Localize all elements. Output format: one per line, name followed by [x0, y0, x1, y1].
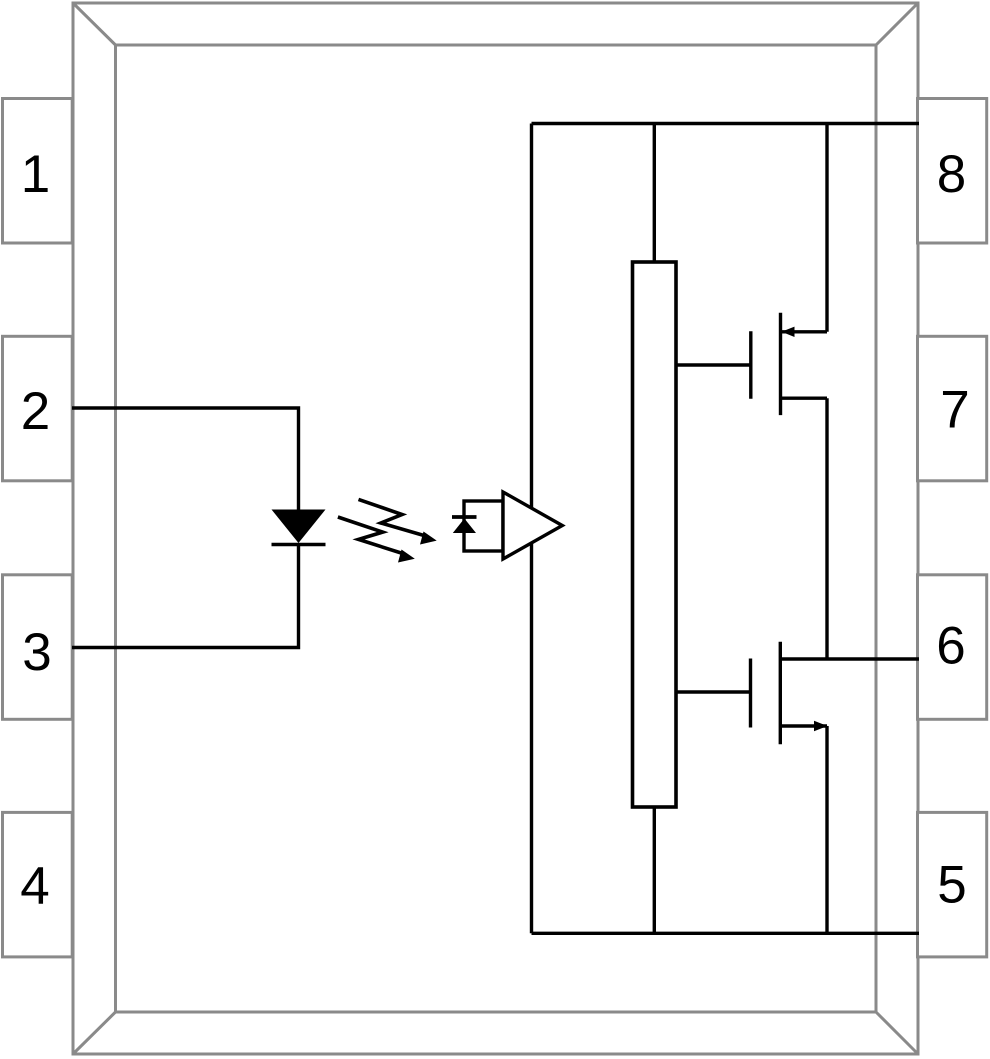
wire Q1 source to Q2 drain node — [825, 398, 828, 659]
wire top rail to pin 8 — [532, 122, 920, 125]
LED D1 (input LED, cathode down) — [272, 510, 326, 545]
driver / charge control block — [633, 262, 677, 807]
photodiode box — [464, 501, 503, 551]
wire left bus of output circuit — [530, 124, 533, 934]
svg-text:5: 5 — [937, 856, 966, 915]
wire Q1 drain to top rail — [825, 124, 828, 332]
package bevel bottom-left — [73, 1012, 116, 1054]
MOSFET Q1 (upper) — [676, 313, 827, 415]
svg-text:3: 3 — [22, 623, 51, 682]
pin 7 pad — [918, 336, 987, 481]
photodiode PD1 (cathode up) — [452, 517, 477, 533]
svg-text:6: 6 — [936, 617, 965, 676]
svg-text:4: 4 — [20, 857, 49, 916]
pin 8 pad — [918, 99, 987, 244]
wire bottom rail to pin 5 — [532, 932, 920, 935]
svg-text:7: 7 — [940, 381, 969, 440]
wire pin 2 to LED anode — [72, 408, 299, 511]
wire LED cathode to pin 3 — [72, 543, 299, 648]
pin 3 pad — [3, 575, 73, 720]
svg-text:1: 1 — [21, 145, 50, 204]
light emission arrow 1 (upper) — [359, 499, 437, 544]
MOSFET Q2 (lower) — [676, 642, 828, 745]
svg-text:8: 8 — [937, 145, 966, 204]
pin 2 pad — [3, 336, 73, 481]
wire Q2 source to bottom rail — [825, 726, 828, 933]
wire Q2 drain to pin 6 — [780, 657, 919, 660]
package bevel bottom-right — [876, 1012, 918, 1054]
package bevel top-right — [876, 3, 918, 45]
pin 5 pad — [918, 812, 987, 957]
package bevel top-left — [73, 3, 116, 45]
pin 6 pad — [918, 575, 987, 720]
pin 4 pad — [3, 812, 73, 957]
package body inner outline — [116, 45, 877, 1012]
pin 1 pad — [3, 99, 73, 244]
svg-text:2: 2 — [21, 382, 50, 441]
wire top rail to driver block — [653, 124, 656, 263]
light emission arrow 2 (lower) — [338, 517, 415, 563]
wire driver block to bottom rail — [653, 807, 656, 933]
amplifier / detector U1 — [503, 492, 562, 559]
